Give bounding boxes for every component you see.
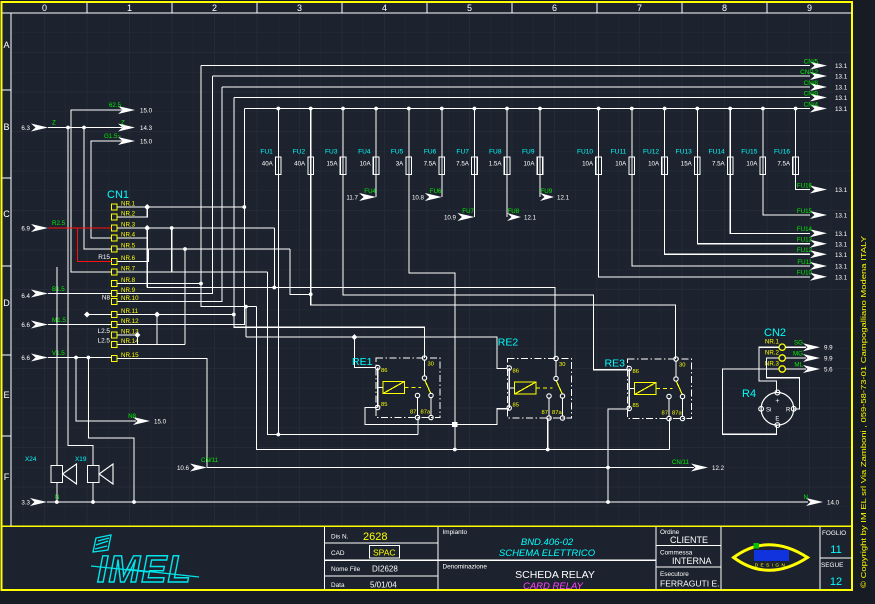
svg-text:10A: 10A [523,161,535,168]
wire fuse FU5 drop [408,109,410,158]
wire CM/8 riser to NR.10 [118,87,223,302]
svg-text:7.5A: 7.5A [424,161,438,168]
wire NR.3-NR.4 jumper [118,228,148,238]
svg-text:FU11: FU11 [611,149,627,156]
arrow out CN/8 to 13.1 [810,83,827,91]
arrow out G1.5 to 15.0 [118,137,135,145]
svg-text:B: B [3,122,9,132]
wire fuse FU15 drop [762,109,764,158]
fuse FU9 body [539,157,541,175]
svg-text:MG: MG [793,351,803,358]
wire NR.3 to NR.7 link [171,228,173,272]
svg-text:CN/4: CN/4 [804,101,819,108]
wire NR.13 line [118,334,138,336]
svg-text:G1.5~: G1.5~ [104,133,121,140]
wire NR.14 extension to NR.5 bus [118,344,186,346]
svg-text:10A: 10A [615,161,627,168]
svg-text:87a: 87a [552,410,562,416]
svg-text:11.7: 11.7 [346,195,358,202]
column header separators [86,2,88,13]
svg-text:87a: 87a [421,410,431,416]
svg-text:87: 87 [542,410,548,416]
wire NR.6 jumper up to NR.5 bus [118,249,149,262]
node junction NR.11 on CM/9 riser [232,313,236,317]
relay RE3 pivot [674,377,678,381]
svg-text:85: 85 [513,403,519,409]
wire FU2 bus corner down [290,249,311,294]
svg-text:FU16: FU16 [774,149,790,156]
wire fuse FU15 output to sheet 13.1 [763,175,810,216]
relay RE1 contact NO [415,393,419,397]
title block denominazione line [438,559,656,561]
svg-text:10A: 10A [746,161,758,168]
relay RE1 pin 85 [376,405,380,409]
node junction CM/4 riser at NR.1 [242,205,246,209]
svg-text:M1.5: M1.5 [52,317,66,324]
wire Z branch down-left to X19 [68,128,93,466]
fuse FU16 body [795,157,797,175]
svg-text:13.1: 13.1 [835,241,848,248]
wire fuse FU12 drop [664,109,666,158]
svg-text:9.9: 9.9 [824,345,833,352]
wire fuse FU6 output stub [441,175,443,198]
wire bus to RE2 pin30 [274,288,555,359]
arrow out CN/4 to 13.1 [810,105,827,113]
node junction Z branch to NR.5 [82,126,86,130]
svg-text:L2.5: L2.5 [98,328,111,335]
node junction RE3 85 on CN/11 [606,466,610,470]
node diamond RE1 86 tap [351,334,357,340]
arrow out CN/9 to 13.1 [810,94,827,102]
wire CN2 NR.3 to R4 E [722,369,779,434]
svg-text:C: C [3,209,10,219]
svg-text:14.0: 14.0 [827,500,840,507]
connector CN1 pin NR.7 [112,269,118,275]
node junction FU2 column [309,292,313,296]
svg-text:FU16: FU16 [797,182,813,189]
svg-text:40A: 40A [294,161,306,168]
svg-text:FU13: FU13 [797,237,813,244]
relay RE1 pin 87a [429,415,433,419]
svg-text:10.6: 10.6 [177,465,190,472]
fuse FU13 body [696,157,698,175]
svg-text:85: 85 [633,403,639,409]
wire FU2 column descender to RE3 30 [311,175,676,360]
relay RE1 contact NC [429,393,433,397]
arrow in 11.7 to FU4 [359,193,376,201]
fuse FU15 body [762,157,764,175]
svg-text:6: 6 [552,3,557,13]
wire NR.1-NR.2 jumper [118,207,148,217]
node junction N8 riser on V1.5 line [74,356,78,360]
connector CN1 pin NR.14 [112,342,118,348]
wire net N8 to 15.0 arrow [76,358,136,422]
svg-text:Si: Si [766,408,771,414]
logo DESIGN eye [734,545,808,571]
svg-text:FU15: FU15 [797,208,813,215]
svg-text:Data: Data [331,582,345,589]
relay RE3 pin 85 [627,406,631,410]
wire fuse FU14 output to sheet 13.1 [730,175,810,234]
node junction FU5 on contact bus [453,448,457,452]
wire CM/9 riser to NR.11 and RE1 30 [234,98,425,359]
wire fuse FU3 drop [342,109,344,158]
wire fuse FU10 output to sheet 13.1 [599,175,810,277]
svg-text:10.8: 10.8 [412,195,425,202]
wire fuse FU6 drop [441,109,443,158]
title block top yellow line [2,525,852,527]
svg-text:13.1: 13.1 [835,213,848,220]
wire X19 to N bus [92,483,94,503]
row-letter column line [10,13,12,526]
svg-text:87: 87 [662,411,668,417]
relay RE3 pin 86 [627,366,631,370]
relay RE2 contact dashed link [536,387,553,389]
wire RE2 87 descender [547,418,549,450]
svg-text:15A: 15A [681,161,693,168]
wire fuse FU8 output stub [506,175,508,218]
arrow out FU9 to 12.1 [540,193,554,201]
wire NR.1 to bus CM/4 riser [118,206,245,208]
svg-text:8: 8 [722,3,727,13]
svg-text:N8: N8 [128,413,136,420]
svg-text:2628: 2628 [363,531,387,543]
svg-text:FU7: FU7 [456,149,469,156]
connector CN1 pin NR.12 [112,322,118,328]
relay RE2 pin 86 [507,366,511,370]
svg-text:10A: 10A [582,161,594,168]
svg-text:0: 0 [42,3,47,13]
svg-text:FU4: FU4 [358,149,371,156]
node junction NR.3 link [170,226,174,230]
relay RE2 pin 85 [507,406,511,410]
wire CN2 NR.1 to arrow [785,346,806,348]
wire Z branch to NR.5 [84,128,112,250]
wire fuse FU12 output to sheet 13.1 [665,175,810,255]
relay RE3 switch arm [676,381,683,396]
node junction fuse FU14 top [728,107,732,111]
wire fuse FU2 drop [310,109,312,158]
wire NR.11 line [118,314,234,316]
arrow out ML [803,365,820,373]
connector CN1 pin NR.5 [112,246,118,252]
svg-text:FU7: FU7 [462,208,474,215]
svg-text:Denominazione: Denominazione [443,564,488,571]
node junction fuse FU2 top [309,107,313,111]
wire CM/4 riser to NR.12 [118,109,245,325]
relay RE1 pin 87 [415,415,419,419]
node junction fuse FU16 top [794,107,798,111]
wire X24 to N bus [56,483,58,503]
fuse FU10 body [598,157,600,175]
relay RE3 contact drops [668,398,670,417]
relay RE2 switch arm [556,380,563,395]
svg-text:CN/11: CN/11 [672,459,690,466]
svg-text:SEGUE: SEGUE [821,562,843,569]
node junction fuse FU9 top [538,107,542,111]
arrow out FU12 [810,250,827,258]
wire CM/5 riser lower segment [201,66,257,307]
svg-text:ML: ML [794,362,803,369]
svg-text:13.1: 13.1 [835,85,848,92]
relay RE1 contact dashed link [405,387,422,389]
relay RE2 coil wiring [508,368,510,408]
wire net CN/4 horizontal feeder [244,108,810,110]
wire supply bus to fuses (net CM/4 bus) [244,108,810,110]
svg-text:+: + [775,398,779,405]
svg-text:Dis N.: Dis N. [331,534,349,541]
svg-text:9.9: 9.9 [824,356,833,363]
svg-text:30: 30 [559,362,565,368]
relay RE3 pin 87a [680,416,684,420]
arrow out SG [803,343,820,351]
svg-text:12.2: 12.2 [712,465,725,472]
svg-text:FU8: FU8 [508,208,520,215]
node junction fuse FU10 top [597,107,601,111]
wire NR.11 to NR.14 link [156,315,158,345]
svg-text:13.1: 13.1 [835,264,848,271]
svg-text:2: 2 [212,3,217,13]
wire net N bottom bus [47,501,808,503]
arrow out FU13 [810,240,827,248]
arrow out CN/11 to 12.2 [691,464,708,472]
wire fuse FU16 drop [795,109,797,158]
svg-text:FU2: FU2 [293,149,306,156]
svg-text:A: A [3,40,9,50]
connector CN1 pin NR.1 [112,204,118,210]
svg-text:7: 7 [637,3,642,13]
node junction fuse FU5 top [407,107,411,111]
wire fuse FU7 output stub [473,175,475,218]
svg-text:87: 87 [410,410,416,416]
svg-text:FU13: FU13 [676,149,692,156]
svg-text:10A: 10A [360,161,372,168]
node junction fuse FU15 top [761,107,765,111]
svg-text:1: 1 [127,3,132,13]
node junction fuse FU3 top [341,107,345,111]
wire fuse FU4 drop [375,109,377,158]
svg-text:7.5A: 7.5A [712,161,726,168]
svg-text:FU10: FU10 [797,270,813,277]
relay RE3 coil wiring [628,369,630,409]
wire riser to coil supply bus [245,307,247,338]
svg-text:13.1: 13.1 [835,106,848,113]
wire NR.7 to descender [118,271,268,273]
node junction fuse FU7 top [473,107,477,111]
arrow out FU14 [810,229,827,237]
relay RE1 coil wiring [377,368,379,408]
relay RE2 contact drops [548,398,550,417]
arrow out Z to 14.3 [118,124,135,132]
node diamond NR.3-NR.4 jumper [144,225,150,231]
wire CN2 NR.3 to arrow [785,368,806,370]
row letter separators [2,89,11,91]
svg-text:IMEL: IMEL [97,549,192,591]
wire fuse FU11 output to sheet 13.1 [632,175,810,267]
svg-text:Esecutore: Esecutore [660,571,689,578]
arrow out FU8 to 12.1 [507,213,521,221]
svg-text:CN/11: CN/11 [201,457,219,464]
svg-text:86: 86 [381,368,387,374]
arrow in 10.8 to FU6 [425,193,442,201]
svg-text:L2.5: L2.5 [98,338,111,345]
relay RE2 pin 30 internal [555,360,557,377]
wire RE1 86 tap [354,337,377,367]
svg-text:12.1: 12.1 [524,215,537,222]
svg-text:E: E [3,390,9,400]
node junction fuse FU11 top [630,107,634,111]
wire net CN/9 horizontal feeder [234,97,810,99]
svg-text:86: 86 [633,369,639,375]
node junction fuse FU1 top [276,107,280,111]
relay RE2 contact NC [560,394,564,398]
wire net G1.5 to NR.4 [91,141,122,238]
node junction fuse FU6 top [440,107,444,111]
wire CN2 NR.1 to R4 + [759,347,779,392]
fuse FU6 body [441,157,443,175]
svg-text:11: 11 [830,544,841,556]
svg-text:FU9: FU9 [522,149,535,156]
wire RE3 85 to CN/11 and N bus [608,409,629,502]
connector CN1 pin NR.3 [112,225,118,231]
wire coil supply bus 337 to RE2 86 [246,337,508,368]
svg-text:7.5A: 7.5A [456,161,470,168]
svg-text:3A: 3A [396,161,404,168]
arrow out MG [803,354,820,362]
relay RE1 switch arm [425,380,432,395]
relay RE2 pivot [554,376,558,380]
fuse FU2 body [310,157,312,175]
relay RE3 outline [628,359,692,419]
wire fuse FU13 drop [696,109,698,158]
node junction X19 on N bus [91,500,95,504]
relay RE3 pin 87 [667,416,671,420]
fuse FU7 body [473,157,475,175]
connector CN1 pin NR.8 [112,281,118,287]
wire fuse FU9 output stub [539,175,541,198]
svg-text:NR.2: NR.2 [765,350,780,357]
svg-text:FU10: FU10 [577,149,593,156]
node diamond NR.13 jumper [134,332,140,338]
svg-text:FU8: FU8 [489,149,502,156]
wire FU3 column descender to RE3 86 [343,175,628,370]
svg-text:N: N [804,494,808,501]
svg-text:RE1: RE1 [352,356,373,368]
wire fuse FU11 drop [631,109,633,158]
node junction RE2 30 bus [272,286,276,290]
svg-text:Nome File: Nome File [331,566,361,573]
wire net CN/11 [207,467,694,469]
wire net Z horizontal [48,127,122,129]
svg-text:3.3: 3.3 [21,500,30,507]
connector CN2 pin NR.1 [779,344,785,350]
node diamond NR.1-NR.2 jumper [144,204,150,210]
arrow out FU15 [810,211,827,219]
wire fuse FU4 output stub [375,175,377,198]
arrow out 62.5 to 15.0 [118,106,135,114]
svg-text:CN1: CN1 [107,189,129,201]
svg-text:FU5: FU5 [391,149,404,156]
arrow out CN/12 to 13.1 [810,72,827,80]
connector CN2 pin NR.2 [779,355,785,361]
svg-text:15.0: 15.0 [140,108,153,115]
relay RE2 pin 30 [554,356,558,360]
node junction fuse FU8 top [505,107,509,111]
wire fuse FU10 drop [598,109,600,158]
svg-text:FU1: FU1 [260,149,273,156]
relay RE1 pivot [422,376,426,380]
svg-text:R15: R15 [98,254,110,261]
wire NR.15 to CN/11 line [118,359,208,468]
relay RE1 contact drops [417,397,419,416]
R4 pin left [759,406,764,411]
svg-text:5/01/04: 5/01/04 [370,581,397,590]
svg-text:CN2: CN2 [764,327,786,339]
fuse FU11 body [631,157,633,175]
node junction FU1 on 87 bus [276,433,280,437]
title block vertical separators [324,526,326,590]
wire CM/12 riser to NR.9 [118,76,213,294]
node junction coil bus riser [244,305,248,309]
svg-text:86: 86 [513,369,519,375]
relay RE1 coil [383,382,405,394]
svg-text:6.6: 6.6 [21,322,30,329]
svg-text:FU3: FU3 [325,149,338,156]
node junction NR.5 bus [183,247,187,251]
svg-text:© Copyright by IM EL srl Via Z: © Copyright by IM EL srl Via Zamboni , 0… [860,236,868,588]
svg-text:R2.5: R2.5 [52,220,66,227]
relay RE3 contact dashed link [656,388,673,390]
wire net CN/5 horizontal feeder [201,65,810,67]
svg-text:SPAC: SPAC [373,548,396,558]
wire CN2 NR.2 to arrow [785,357,806,359]
relay RE2 contact NO [547,394,551,398]
connector CN2 pin NR.3 [779,366,785,372]
svg-text:INTERNA: INTERNA [672,556,712,566]
arrow out FU11 [810,262,827,270]
relay RE2 outline [508,359,572,419]
svg-text:12.1: 12.1 [557,195,570,202]
svg-text:SG: SG [794,340,803,347]
svg-text:6.6: 6.6 [21,355,30,362]
wire NR.7 descender to relay 87 bus [267,272,418,435]
svg-text:FU14: FU14 [709,149,725,156]
wire fuse FU8 drop [506,109,508,158]
svg-text:7.5A: 7.5A [777,161,791,168]
svg-text:62.5: 62.5 [109,102,122,109]
node junction V1.5 branch on N bus [132,500,136,504]
svg-text:9: 9 [807,3,812,13]
svg-text:Impianto: Impianto [443,529,468,536]
relay RE2 coil [515,382,537,394]
svg-text:CN/8: CN/8 [804,80,819,87]
svg-text:N8: N8 [102,295,111,302]
connector CN1 pin NR.11 [112,312,118,318]
svg-text:F: F [4,472,10,482]
column header row line [2,12,852,14]
arrow in 10.9 to FU7 [457,213,474,221]
relay RE3 coil [635,383,657,395]
arrow out N8 to 15.0 [133,417,150,425]
connector CN1 pin NR.13 [112,332,118,338]
fuse FU3 body [342,157,344,175]
svg-text:FOGLIO: FOGLIO [822,530,846,537]
svg-text:FU12: FU12 [643,149,659,156]
svg-text:87a: 87a [672,411,682,417]
wire RE1 85 to bus [365,408,509,425]
wire CN2 NR.2 to R4 R [767,358,800,409]
wire riser to contact bus [257,307,670,450]
